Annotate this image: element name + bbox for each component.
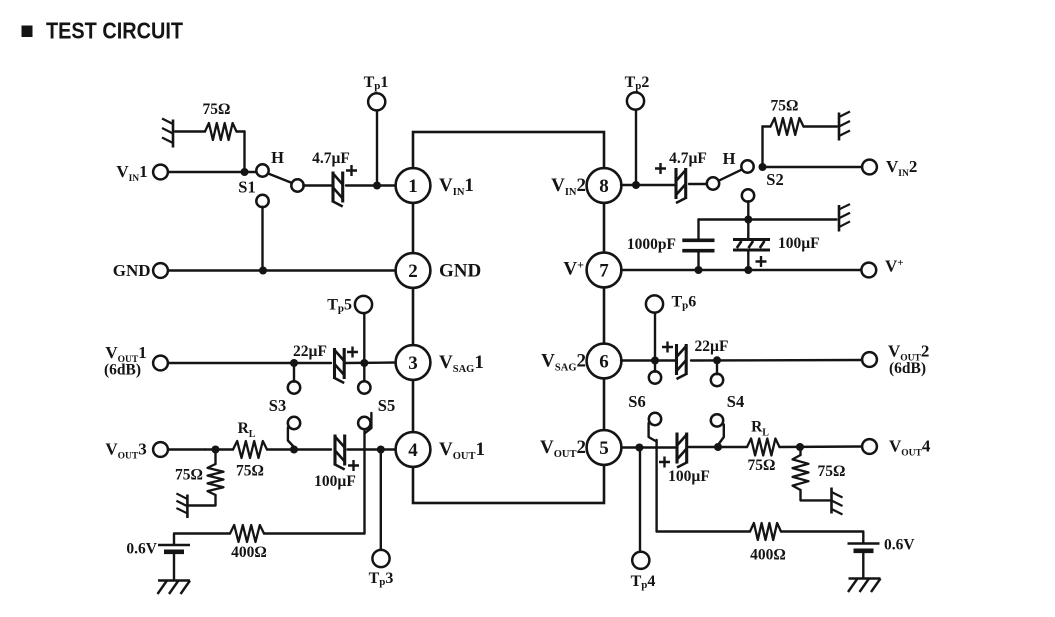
node S1 junction — [241, 168, 249, 176]
svg-text:VSAG1: VSAG1 — [439, 352, 484, 375]
resistor R4 75R vertical — [793, 455, 809, 490]
svg-text:Tp5: Tp5 — [327, 297, 352, 315]
svg-text:GND: GND — [439, 261, 481, 282]
node Tp2 junction — [632, 181, 640, 189]
svg-text:4.7µF: 4.7µF — [669, 150, 707, 167]
terminal GND — [153, 263, 168, 278]
pin 3 — [396, 345, 431, 380]
wire R3 to ground — [189, 495, 216, 506]
node Tp6 junction — [651, 357, 659, 365]
terminal VIN1 — [153, 165, 168, 180]
title block — [22, 26, 33, 38]
svg-text:RL: RL — [751, 419, 769, 439]
wire RL to C3 — [267, 448, 331, 450]
svg-text:75Ω: 75Ω — [771, 98, 799, 115]
node Tp3 junction — [377, 446, 385, 454]
switch S5 lower contact — [358, 417, 370, 429]
wire Tp5 to S5 — [363, 314, 365, 382]
wire RL to VOUT4 terminal — [780, 445, 863, 448]
svg-text:75Ω: 75Ω — [236, 463, 264, 480]
wire S6 arm to 400R line — [655, 440, 657, 532]
switch S2 pole contact — [707, 177, 719, 189]
wire Tp6 — [654, 313, 656, 361]
pin 7 — [587, 253, 622, 288]
svg-text:8: 8 — [599, 176, 609, 197]
switch S6 arm — [649, 423, 657, 442]
switch S5 upper contact — [358, 381, 370, 393]
test point Tp3 — [372, 550, 389, 567]
svg-text:6: 6 — [599, 351, 609, 372]
pin 2 — [396, 253, 431, 288]
svg-text:1000pF: 1000pF — [627, 236, 676, 253]
svg-text:H: H — [271, 148, 284, 167]
terminal VOUT1 — [153, 356, 168, 371]
terminal VIN2 — [862, 160, 877, 175]
wire S2 junction to VIN2 terminal — [763, 166, 863, 168]
switch S1 contact H — [256, 164, 268, 176]
wire junction to R3 — [214, 450, 216, 465]
svg-text:400Ω: 400Ω — [231, 544, 267, 561]
svg-text:RL: RL — [238, 420, 256, 440]
pin 8 — [587, 168, 622, 203]
wire S2 lower contact down — [747, 201, 749, 219]
svg-text:VIN2: VIN2 — [886, 157, 917, 179]
wire corner to resistor R2 — [763, 125, 771, 127]
svg-text:VOUT3: VOUT3 — [105, 440, 146, 462]
wire VIN1 terminal to S1 — [168, 171, 258, 173]
switch S1 pole contact — [291, 179, 303, 191]
wire R4 to ground — [801, 490, 831, 500]
svg-text:75Ω: 75Ω — [748, 457, 776, 474]
wire 1000pF top stub — [697, 220, 699, 239]
svg-text:S2: S2 — [766, 170, 783, 189]
ground G4 top-right — [839, 112, 850, 141]
resistor RL right 75R — [747, 439, 780, 456]
svg-text:3: 3 — [408, 353, 418, 374]
wire S2 junction to 75R — [761, 127, 763, 168]
node S3 top junction — [290, 359, 298, 367]
wire 1000pF bottom stub — [697, 251, 699, 270]
wire resistor R1 to corner — [237, 130, 245, 132]
svg-text:0.6V: 0.6V — [126, 541, 157, 558]
switch S2 arm — [719, 169, 743, 181]
wire C8 to RL — [689, 446, 747, 448]
svg-text:100µF: 100µF — [314, 473, 356, 490]
svg-text:Tp2: Tp2 — [625, 74, 650, 92]
svg-text:VOUT2: VOUT2 — [540, 437, 586, 460]
test point Tp4 — [632, 552, 649, 569]
switch S4 upper contact — [711, 374, 723, 386]
pin 1 — [396, 168, 431, 203]
svg-text:Tp1: Tp1 — [364, 74, 389, 92]
switch S3 upper contact — [288, 381, 300, 393]
wire 400R to S5 line — [264, 532, 365, 534]
wire battery B2 to ground — [862, 551, 864, 577]
wire C2 to pin 3 — [346, 361, 396, 364]
svg-text:Tp3: Tp3 — [369, 570, 394, 588]
ground G6 right — [832, 488, 843, 515]
switch S2 contact H — [741, 160, 753, 172]
svg-text:4: 4 — [408, 440, 418, 461]
svg-text:100µF: 100µF — [778, 235, 820, 252]
wire S1 lower contact to GND line — [261, 207, 263, 271]
test point Tp6 — [646, 295, 663, 312]
test point Tp5 — [355, 296, 372, 313]
wire 100uF bottom stub — [747, 250, 749, 270]
switch S1 lower contact — [256, 195, 268, 207]
wire ground to resistor R1 — [175, 130, 205, 132]
wire junction to RL — [205, 448, 233, 450]
resistor R6 400R — [750, 523, 781, 540]
ground G3 under B1 — [158, 579, 190, 582]
switch S6 lower contact — [649, 413, 661, 425]
pin 5 — [587, 430, 622, 465]
wire Tp3 — [380, 450, 382, 551]
switch S3 arm — [288, 428, 294, 448]
svg-text:400Ω: 400Ω — [750, 547, 786, 564]
svg-text:100µF: 100µF — [668, 468, 710, 485]
svg-text:S3: S3 — [269, 396, 286, 415]
node S3 bottom junction — [290, 446, 298, 454]
wire C7 to VOUT2 terminal — [691, 359, 862, 362]
wire pin 8 to C4 — [621, 184, 676, 186]
svg-text:2: 2 — [408, 261, 418, 282]
terminal VOUT3 — [153, 442, 168, 457]
ground G5 right — [839, 204, 850, 231]
svg-text:GND: GND — [113, 261, 151, 280]
wire top rail 1000pF to ground — [699, 218, 837, 220]
battery B2 0.6V — [848, 542, 880, 545]
terminal VOUT4 — [862, 439, 877, 454]
wire S1 pole to C1 — [303, 184, 331, 186]
capacitor C3 100uF — [333, 435, 336, 466]
wire 75R to S1 junction — [243, 132, 245, 173]
svg-text:S6: S6 — [628, 392, 645, 411]
svg-text:22µF: 22µF — [695, 338, 729, 355]
capacitor C4 4.7uF — [674, 168, 677, 199]
switch S4 lower contact — [711, 414, 723, 426]
wire Tp2 — [635, 110, 637, 185]
terminal V+ — [861, 263, 876, 278]
wire C1 to pin 1 — [346, 184, 396, 186]
svg-text:H: H — [723, 149, 736, 168]
svg-text:VSAG2: VSAG2 — [541, 351, 586, 374]
svg-text:V+: V+ — [885, 257, 904, 276]
switch S3 lower contact — [288, 417, 300, 429]
switch S1 arm — [268, 173, 293, 183]
svg-text:(6dB): (6dB) — [104, 362, 141, 379]
node 75R right junction — [796, 443, 804, 451]
svg-text:S5: S5 — [378, 396, 395, 415]
node V+ 100uF junction — [744, 266, 752, 274]
wire GND terminal to pin 2 — [168, 269, 397, 271]
capacitor C2 22uF — [333, 348, 336, 379]
node Tp5 junction — [360, 359, 368, 367]
svg-text:7: 7 — [599, 260, 609, 281]
svg-text:S1: S1 — [238, 178, 255, 197]
svg-text:Tp6: Tp6 — [672, 294, 697, 312]
svg-text:0.6V: 0.6V — [884, 537, 915, 554]
pin 4 — [396, 432, 431, 467]
wire S4 stub — [716, 360, 718, 374]
IC body U1 — [413, 132, 604, 503]
node S4 bottom junction — [714, 443, 722, 451]
wire C4 to S2 pole — [689, 183, 708, 185]
node Tp1 junction — [373, 182, 381, 190]
resistor R2 75R — [771, 118, 804, 135]
node V+ 1000pF junction — [695, 266, 703, 274]
svg-text:5: 5 — [599, 438, 609, 459]
switch S4 arm — [718, 425, 724, 446]
svg-text:75Ω: 75Ω — [818, 463, 846, 480]
battery B1 0.6V — [158, 544, 190, 547]
test point Tp1 — [368, 93, 385, 110]
svg-text:(6dB): (6dB) — [889, 360, 926, 377]
switch S5 arm — [365, 413, 371, 433]
test point Tp2 — [627, 92, 644, 109]
capacitor C8 100uF — [675, 433, 678, 464]
svg-text:Tp4: Tp4 — [631, 573, 656, 591]
resistor R1 75R — [205, 123, 237, 140]
resistor R3 75R vertical — [208, 464, 224, 495]
wire junction to R4 — [799, 447, 801, 455]
wire VOUT3 terminal to RL — [168, 448, 205, 450]
svg-text:75Ω: 75Ω — [175, 467, 203, 484]
plus C6 — [756, 256, 767, 267]
ground G7 under B2 — [849, 577, 881, 580]
resistor R5 400R — [230, 525, 264, 542]
wire Tp1 — [376, 111, 378, 186]
node 75R junction — [212, 446, 220, 454]
pin 6 — [587, 344, 622, 379]
capacitor C5 1000pF — [682, 239, 714, 243]
svg-text:VOUT4: VOUT4 — [889, 437, 931, 459]
wire R2 to ground — [804, 125, 838, 127]
resistor RL left 75R — [233, 441, 267, 458]
switch S6 upper contact — [649, 371, 661, 383]
wire battery B1 to ground — [173, 552, 175, 579]
node S4 top junction — [713, 356, 721, 364]
wire S5 arm to 400R line — [363, 431, 365, 534]
svg-text:VOUT1: VOUT1 — [439, 439, 485, 462]
ground G1 top-left — [162, 119, 173, 148]
svg-text:S4: S4 — [727, 392, 744, 411]
capacitor C6 100uF — [733, 238, 770, 241]
capacitor C1 4.7uF — [331, 172, 334, 203]
svg-text:75Ω: 75Ω — [203, 101, 231, 118]
terminal VOUT2 — [862, 352, 877, 367]
wire S3 stub — [293, 363, 295, 382]
svg-text:VIN1: VIN1 — [116, 162, 147, 184]
wire 100uF top stub — [747, 220, 749, 240]
wire battery B1 to 400R — [174, 534, 230, 545]
wire pin 7 to V+ terminal — [621, 269, 862, 271]
wire pin 6 to C7 — [621, 359, 675, 361]
wire Tp4 — [639, 448, 641, 552]
wire C3 to pin 4 — [348, 448, 397, 450]
capacitor C7 22uF — [675, 344, 678, 375]
ground G2 left — [176, 493, 187, 518]
svg-text:4.7µF: 4.7µF — [312, 150, 350, 167]
node GND junction — [259, 267, 267, 275]
wire 400R to battery B2 — [781, 532, 863, 544]
svg-text:V+: V+ — [563, 258, 584, 280]
node S2 junction — [759, 163, 767, 171]
svg-text:1: 1 — [408, 176, 418, 197]
wire S6 line to 400R — [657, 530, 750, 532]
svg-text:VIN1: VIN1 — [439, 175, 474, 198]
wire VOUT1 terminal to C2 — [168, 362, 331, 364]
node Tp4 junction — [635, 444, 643, 452]
switch S2 lower contact — [742, 189, 754, 201]
svg-text:TEST CIRCUIT: TEST CIRCUIT — [46, 18, 184, 44]
node top rail junction — [744, 216, 752, 224]
svg-text:22µF: 22µF — [293, 343, 327, 360]
svg-text:VIN2: VIN2 — [551, 175, 586, 198]
wire pin 5 to C8 — [622, 446, 675, 448]
wire S6 stub — [654, 361, 656, 372]
